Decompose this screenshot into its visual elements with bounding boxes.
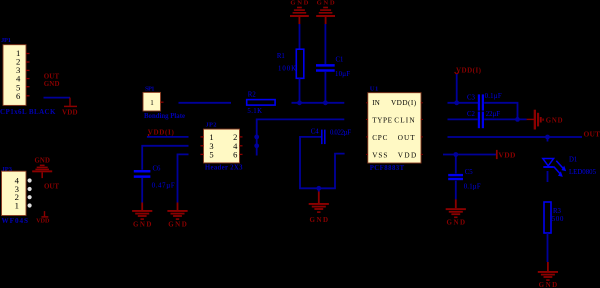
junction (JP2 pin4) [254,143,259,148]
junction (VDD(I) row) [454,100,459,105]
svg-text:22µF: 22µF [486,111,500,118]
LED D1 [543,156,597,177]
capacitor C3 [467,93,502,110]
svg-text:SP1: SP1 [145,85,155,92]
svg-text:GND: GND [546,118,563,125]
wire VDD(I) down to VDD(I) pin row [456,74,458,103]
svg-text:6: 6 [233,149,237,159]
svg-text:10µF: 10µF [335,71,350,78]
svg-text:VDD(I): VDD(I) [148,128,175,136]
svg-text:JP1: JP1 [1,37,11,44]
svg-text:VSS: VSS [372,152,387,160]
junction (GND rail below C4) [316,186,321,191]
svg-text:C6: C6 [153,166,162,173]
resistor R2 [247,91,275,114]
wire C5 to GND [455,181,457,200]
ground GND (below R3) [538,262,558,288]
svg-text:Bonding Plate: Bonding Plate [144,113,185,120]
svg-text:C3: C3 [467,94,476,101]
header JP2 [201,122,244,172]
svg-text:CPC: CPC [372,134,387,142]
wire C4 left to GND rail [300,137,345,188]
capacitor C2 [467,111,500,128]
svg-text:LED0805: LED0805 [569,169,597,176]
ground GND (below C5) [446,199,466,226]
svg-text:OUT: OUT [398,134,415,142]
svg-text:GND: GND [133,220,152,228]
ground GND (below JP2 pin5 wire) [167,203,187,229]
wire OUT row [448,136,583,138]
wire C6 to JP2 pin3 [142,146,188,170]
wire GND to C1 [324,24,326,64]
junction (VDD row, C5 tap) [453,152,458,157]
svg-text:GND: GND [168,220,187,228]
wire VDD row to C5 [455,155,457,174]
svg-text:6: 6 [16,91,21,101]
svg-text:0.1µF: 0.1µF [485,93,502,100]
svg-text:5.1K: 5.1K [247,108,262,115]
svg-text:0.47µF: 0.47µF [152,183,175,190]
svg-text:VDD: VDD [36,217,50,224]
wire C6 to GND [141,178,143,203]
power symbol VDD (below JP3) [36,211,50,224]
svg-text:5: 5 [209,149,213,159]
svg-text:GND: GND [539,281,558,288]
power symbol VDD (right of U1) [497,150,516,160]
svg-text:GND: GND [317,0,335,7]
svg-text:GND: GND [44,80,60,88]
svg-text:C1: C1 [336,57,344,64]
svg-text:IN: IN [372,99,380,107]
wire VDD row [443,154,496,156]
svg-text:TYPE: TYPE [372,117,392,125]
svg-text:1: 1 [15,200,19,210]
svg-text:VDD(I): VDD(I) [456,66,482,74]
svg-text:C4: C4 [311,128,320,135]
junction (C1 bottom) [323,100,328,105]
ground GND (below C6) [132,203,152,229]
svg-text:R3: R3 [553,208,562,215]
wire C3 right down to CLIN row [484,103,517,120]
svg-text:D1: D1 [569,156,577,163]
wire VDD(I) pin to C3 [448,102,479,104]
connector JP1 [0,37,56,116]
svg-text:WF04S: WF04S [2,217,29,225]
wire OUT junction to D1 [547,137,549,142]
svg-text:VDD: VDD [398,152,416,160]
wire VDD(I) rail to JP2 pin1 [147,136,189,138]
svg-text:OUT: OUT [44,182,59,190]
ground symbol GND (above JP3) [32,157,52,178]
connector JP3 [2,166,32,225]
power symbol VDD (below JP1) [62,98,78,117]
ground GND (top, above R1) [290,0,309,24]
svg-text:VDD: VDD [498,150,516,159]
capacitor C4 [311,128,352,144]
svg-text:100K: 100K [278,65,296,72]
junction (CLIN row) [515,117,520,122]
wire R3 to GND [547,233,549,262]
wire C2 right to GND [484,118,526,120]
wire JP2 pin5 to GND [178,154,189,202]
svg-text:500: 500 [552,216,564,223]
svg-text:JP2: JP2 [206,122,217,129]
resistor R3 [544,202,564,233]
svg-text:VDD: VDD [62,108,78,116]
svg-text:VDD(I): VDD(I) [391,99,417,107]
IC U1 PCF8883T [366,86,423,173]
wire JP1 pin6 to VDD [44,97,71,99]
wire GND to R1 [299,24,301,49]
resistor R1 [277,49,304,78]
capacitor C5 [448,169,481,190]
junction (OUT row, D1 tap) [545,135,550,140]
power symbol VDD(I) (top right) [455,66,482,74]
svg-text:Header 2X3: Header 2X3 [205,165,243,172]
svg-text:CLIN: CLIN [394,117,415,125]
svg-text:R2: R2 [248,91,257,98]
svg-text:R1: R1 [277,53,285,60]
svg-text:C2: C2 [467,111,476,118]
wire C1 to IN row [324,72,326,103]
wire IN row [292,102,345,104]
svg-text:CP1x6L BLACK: CP1x6L BLACK [0,108,56,116]
capacitor C1 [316,57,350,79]
svg-text:0.022µF: 0.022µF [330,129,351,136]
wire TYPE row [257,119,345,155]
junction (R1 bottom) [297,100,302,105]
ground GND (below C4) [309,192,329,224]
svg-text:GND: GND [290,0,308,7]
svg-text:OUT: OUT [584,129,600,138]
wire D1 to R3 [547,171,549,182]
ground GND (top, above C1) [316,0,335,24]
wire SP1 to R2 [179,102,232,104]
power symbol VDD(I) (left) [148,128,175,137]
svg-text:1: 1 [150,99,154,107]
svg-text:U1: U1 [370,86,379,93]
wire R1 to IN row [299,78,301,103]
svg-text:0.1µF: 0.1µF [464,184,481,191]
wire CLIN row [448,118,478,120]
svg-text:GND: GND [34,157,50,164]
svg-text:PCF8883T: PCF8883T [370,165,405,172]
junction (JP2 pin2) [254,135,259,140]
svg-text:GND: GND [447,218,466,226]
svg-text:C5: C5 [465,169,474,176]
svg-text:GND: GND [310,216,329,224]
bonding plate SP1 [143,85,185,119]
capacitor C6 [134,166,175,190]
ground GND (right pointing, CLIN row) [527,110,563,130]
